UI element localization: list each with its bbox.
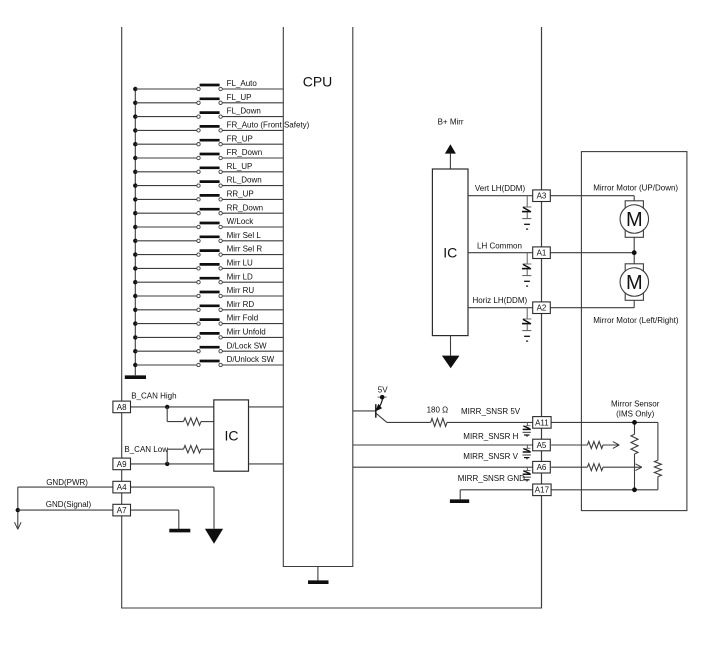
svg-text:GND(Signal): GND(Signal) — [46, 500, 92, 509]
resistor R5 wiper V — [551, 464, 642, 471]
svg-text:MIRR_SNSR V: MIRR_SNSR V — [463, 452, 518, 461]
wire A7 right — [131, 510, 179, 529]
wire A17 left — [460, 490, 533, 500]
switch S12 Mirr Sel L — [133, 231, 283, 243]
switch S15 Mirr LD — [133, 272, 283, 284]
switch S14 Mirr LU — [133, 259, 283, 271]
svg-text:Mirr Fold: Mirr Fold — [227, 314, 259, 323]
switch S19 Mirr Unfold — [133, 328, 283, 340]
switch S11 W/Lock — [133, 217, 283, 229]
svg-text:W/Lock: W/Lock — [227, 217, 255, 226]
pin A5 — [533, 439, 551, 451]
switch S13 Mirr Sel R — [133, 245, 283, 257]
wire A4 left — [18, 486, 113, 488]
CPU U1 — [283, 27, 353, 567]
svg-text:RL_UP: RL_UP — [227, 162, 253, 171]
motor M2 Mirror Motor (Left/Right) — [620, 264, 649, 301]
pin A6 — [533, 461, 551, 473]
svg-text:FL_UP: FL_UP — [227, 93, 252, 102]
svg-text:B_CAN High: B_CAN High — [131, 392, 176, 401]
ground (CPU) — [308, 567, 329, 583]
svg-text:D/Lock SW: D/Lock SW — [227, 341, 267, 350]
svg-text:B+ Mirr: B+ Mirr — [438, 117, 464, 126]
svg-text:A7: A7 — [117, 506, 127, 515]
svg-text:Mirr Sel L: Mirr Sel L — [227, 231, 262, 240]
svg-text:Mirror Motor (Left/Right): Mirror Motor (Left/Right) — [593, 316, 679, 325]
svg-text:5V: 5V — [378, 385, 388, 394]
wire connector column — [541, 27, 543, 608]
junction sensor bottom — [632, 487, 637, 492]
pin A4 — [113, 481, 131, 493]
motor M1 Mirror Motor (UP/Down) — [620, 201, 649, 238]
svg-text:GND(PWR): GND(PWR) — [46, 478, 88, 487]
switch S16 Mirr RU — [133, 286, 283, 298]
svg-text:D/Unlock SW: D/Unlock SW — [227, 355, 275, 364]
module outer box — [122, 27, 542, 608]
switch S21 D/Unlock SW — [133, 355, 283, 367]
wire switch bus — [134, 89, 136, 375]
svg-text:FR_Auto (Front Safety): FR_Auto (Front Safety) — [227, 121, 310, 130]
svg-text:FL_Auto: FL_Auto — [227, 79, 258, 88]
svg-text:A8: A8 — [117, 403, 127, 412]
wire IC to CPU high — [249, 406, 284, 408]
switch S18 Mirr Fold — [133, 314, 283, 326]
switch S8 RL_Down — [133, 176, 283, 188]
svg-text:(IMS Only): (IMS Only) — [616, 409, 655, 418]
pin A1 — [533, 247, 551, 259]
svg-text:A3: A3 — [537, 192, 547, 201]
net LH Common — [468, 241, 533, 252]
svg-text:Horiz LH(DDM): Horiz LH(DDM) — [473, 296, 528, 305]
svg-text:FR_UP: FR_UP — [227, 134, 253, 143]
capacitor C5 noise — [523, 445, 531, 459]
svg-text:Mirr Sel R: Mirr Sel R — [227, 245, 263, 254]
svg-text:RR_UP: RR_UP — [227, 190, 254, 199]
resistor R6 sensor pot H — [631, 422, 638, 489]
ground chassis (A4) — [205, 529, 223, 544]
switch S6 FR_Down — [133, 148, 283, 160]
svg-text:A1: A1 — [537, 249, 547, 258]
switch S1 FL_Auto — [133, 79, 283, 91]
pin A2 — [533, 302, 551, 314]
svg-text:MIRR_SNSR GND: MIRR_SNSR GND — [458, 474, 525, 483]
capacitor C1 noise — [522, 196, 531, 229]
svg-text:MIRR_SNSR H: MIRR_SNSR H — [463, 432, 518, 441]
switch S3 FL_Down — [133, 107, 283, 119]
resistor R7 sensor pot V — [654, 422, 661, 489]
svg-text:Mirror Motor (UP/Down): Mirror Motor (UP/Down) — [593, 184, 678, 193]
capacitor C6 noise — [523, 467, 531, 481]
pin A7 — [113, 504, 131, 516]
mirror assembly box — [581, 152, 687, 511]
svg-text:A2: A2 — [537, 304, 547, 313]
wire A3 to motor — [550, 196, 634, 201]
pin A9 — [113, 458, 131, 470]
svg-text:Mirror Sensor: Mirror Sensor — [611, 400, 660, 409]
svg-text:M: M — [626, 272, 643, 294]
svg-text:A9: A9 — [117, 460, 127, 469]
wire A9 to IC — [131, 463, 214, 465]
wire A7 left — [18, 509, 113, 511]
svg-text:A4: A4 — [117, 483, 127, 492]
svg-text:M: M — [626, 209, 643, 231]
resistor R3 CAN low — [167, 446, 214, 464]
svg-text:CPU: CPU — [303, 74, 333, 90]
svg-text:FL_Down: FL_Down — [227, 107, 261, 116]
wire A17 to sensor — [551, 489, 658, 491]
ground bar (A17) — [450, 499, 469, 503]
ground arrow open — [15, 522, 22, 529]
junction gnd — [16, 508, 20, 512]
ground arrow (driver IC) — [442, 336, 460, 369]
junction B_CAN Low — [165, 462, 169, 466]
net Vert LH(DDM) — [468, 184, 533, 196]
pin A3 — [533, 190, 551, 202]
transistor Q1 5V tap — [353, 395, 387, 422]
svg-text:Mirr LD: Mirr LD — [227, 272, 253, 281]
svg-text:A5: A5 — [537, 441, 547, 450]
net MIRR_SNSR H — [353, 432, 533, 445]
switch S2 FL_UP — [133, 93, 283, 105]
capacitor C2 noise — [522, 253, 531, 286]
net MIRR_SNSR V — [353, 452, 533, 467]
pin A8 — [113, 401, 131, 413]
svg-text:180 Ω: 180 Ω — [427, 406, 449, 415]
wire A1 to motors — [550, 237, 634, 263]
svg-text:Mirr LU: Mirr LU — [227, 259, 253, 268]
switch S20 D/Lock SW — [133, 341, 283, 353]
ground (switch bus) — [125, 375, 146, 379]
switch S7 RL_UP — [133, 162, 283, 174]
switch S5 FR_UP — [133, 134, 283, 146]
net Horiz LH(DDM) — [468, 296, 533, 308]
op-amp U3 CAN IC — [214, 400, 249, 471]
pin A11 — [533, 417, 551, 429]
svg-text:Mirr Unfold: Mirr Unfold — [227, 328, 266, 337]
svg-text:A17: A17 — [535, 486, 550, 495]
svg-text:FR_Down: FR_Down — [227, 148, 263, 157]
wire A2 to motor — [550, 300, 634, 307]
switch S9 RR_UP — [133, 190, 283, 202]
svg-text:IC: IC — [443, 244, 457, 260]
wire A11 to sensor — [551, 421, 658, 423]
junction motors common — [632, 250, 637, 255]
pin A17 — [533, 484, 551, 496]
switch S4 FR_Auto (Front Safety) — [133, 121, 310, 133]
svg-text:Vert LH(DDM): Vert LH(DDM) — [475, 184, 526, 193]
capacitor C4 noise — [523, 422, 531, 436]
svg-text:A11: A11 — [535, 418, 549, 427]
junction B_CAN High — [165, 405, 169, 409]
svg-text:B_CAN Low: B_CAN Low — [124, 445, 168, 454]
svg-text:Mirr RU: Mirr RU — [227, 286, 255, 295]
wire A4 right — [131, 487, 215, 529]
power arrow B+ — [445, 144, 456, 169]
wire IC to CPU low — [249, 463, 284, 465]
svg-text:RL_Down: RL_Down — [227, 176, 262, 185]
svg-text:Mirr RD: Mirr RD — [227, 300, 255, 309]
switch S10 RR_Down — [133, 203, 283, 215]
wire A8 to IC — [131, 406, 214, 408]
wire ground drop — [17, 487, 19, 528]
op-amp U2 driver IC — [432, 169, 468, 336]
junction sensor top — [632, 420, 637, 425]
svg-text:IC: IC — [225, 428, 239, 444]
resistor R1 180ohm — [387, 406, 533, 427]
svg-text:MIRR_SNSR 5V: MIRR_SNSR 5V — [461, 407, 521, 416]
resistor R4 wiper H — [551, 442, 619, 449]
switch S17 Mirr RD — [133, 300, 283, 312]
resistor R2 CAN high — [167, 407, 214, 425]
svg-text:RR_Down: RR_Down — [227, 203, 263, 212]
ground bar (A7) — [169, 529, 190, 533]
svg-text:LH Common: LH Common — [477, 241, 522, 250]
svg-text:A6: A6 — [537, 463, 547, 472]
capacitor C3 noise — [522, 308, 531, 341]
label mirror sensor — [611, 400, 660, 419]
